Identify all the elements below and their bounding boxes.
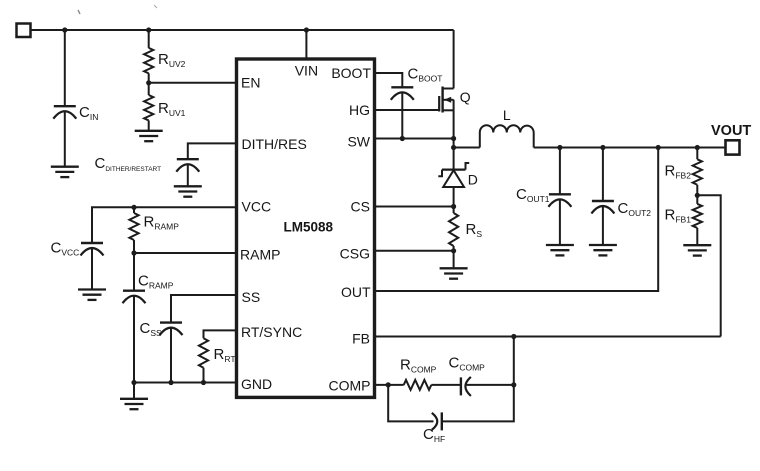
- svg-text:RUV2: RUV2: [158, 51, 186, 69]
- ground RFB1: [683, 245, 711, 255]
- svg-text:CCOMP: CCOMP: [449, 355, 486, 373]
- resistor RCOMP: [404, 380, 432, 390]
- node COUT2 junction: [600, 145, 605, 150]
- wire RCOMP to CCOMP: [431, 384, 461, 386]
- node OUT junction: [656, 145, 661, 150]
- node CIN junction: [62, 27, 67, 32]
- svg-text:RFB2: RFB2: [665, 163, 692, 181]
- svg-text:SW: SW: [347, 134, 370, 150]
- svg-text:VIN: VIN: [295, 62, 318, 78]
- resistor RRAMP: [129, 207, 138, 253]
- node CS junction: [451, 204, 456, 209]
- svg-text:CVCC: CVCC: [51, 240, 80, 258]
- svg-text:COUT1: COUT1: [516, 186, 550, 204]
- svg-text:RT/SYNC: RT/SYNC: [241, 324, 302, 340]
- ground GND rail: [120, 383, 148, 410]
- node FB junction: [511, 334, 516, 339]
- wire BOOT: [374, 73, 402, 87]
- wire HG: [374, 109, 439, 111]
- wire FB tap: [697, 195, 720, 336]
- node COUT1 junction: [557, 145, 562, 150]
- svg-text:RRAMP: RRAMP: [144, 214, 180, 232]
- wire RAMP: [134, 252, 237, 254]
- svg-text:OUT: OUT: [341, 284, 371, 300]
- wire OUT: [374, 148, 658, 292]
- node RRAMP top junction: [131, 205, 136, 210]
- wire CHF to node: [442, 385, 514, 422]
- capacitor CRAMP: [123, 253, 146, 383]
- svg-text:LM5088: LM5088: [284, 220, 334, 235]
- svg-text:HG: HG: [349, 102, 370, 118]
- svg-text:CSG: CSG: [340, 246, 370, 262]
- wire output rail: [534, 147, 726, 149]
- wire to inductor: [454, 147, 480, 149]
- wire SW: [374, 138, 454, 140]
- node CBOOT-SW junction: [400, 136, 405, 141]
- wire GND rail: [134, 382, 237, 384]
- svg-text:COMP: COMP: [329, 378, 371, 394]
- node L junction: [451, 145, 456, 150]
- svg-text:CSS: CSS: [140, 320, 163, 338]
- svg-text:SS: SS: [242, 289, 261, 305]
- VOUT terminal: [726, 140, 740, 154]
- capacitor CSS: [160, 323, 183, 383]
- node RFB2 junction: [695, 145, 700, 150]
- svg-text:RAMP: RAMP: [240, 247, 280, 263]
- svg-text:L: L: [503, 107, 511, 123]
- svg-text:EN: EN: [241, 75, 260, 91]
- wire CSG: [374, 250, 454, 252]
- wire SS: [171, 295, 237, 323]
- svg-text:DITH/RES: DITH/RES: [242, 136, 307, 152]
- wire VCC: [92, 207, 237, 243]
- capacitor COUT1: [548, 148, 571, 246]
- inductor L: [480, 125, 534, 147]
- wire CCOMP to node: [467, 384, 514, 386]
- svg-text:CIN: CIN: [79, 104, 98, 122]
- resistor RS: [449, 213, 458, 268]
- resistor RUV2: [144, 30, 153, 95]
- wire COMP: [374, 384, 404, 386]
- resistor RFB1: [693, 204, 702, 245]
- node COMP right junction: [511, 382, 516, 387]
- input terminal: [17, 24, 31, 38]
- diode D schottky: [438, 163, 469, 213]
- svg-text:RFB1: RFB1: [665, 207, 692, 225]
- svg-text:RS: RS: [466, 221, 483, 239]
- op-amp U1 IC LM5088 body: [237, 59, 375, 397]
- svg-text:FB: FB: [352, 331, 370, 347]
- capacitor CCOMP: [461, 377, 471, 396]
- wire top rail: [31, 29, 454, 31]
- svg-text:CRAMP: CRAMP: [138, 273, 174, 291]
- svg-text:GND: GND: [241, 376, 272, 392]
- ground CDITHER: [174, 186, 202, 196]
- ground COUT1: [546, 245, 574, 255]
- node CSG junction: [451, 248, 456, 253]
- svg-text:RRT: RRT: [214, 346, 236, 364]
- wire FB: [374, 336, 721, 338]
- node EN junction: [146, 80, 151, 85]
- svg-text:VCC: VCC: [242, 199, 272, 215]
- node FB tap junction: [695, 193, 700, 198]
- svg-text:RCOMP: RCOMP: [400, 357, 437, 375]
- node GND rail junctions: [131, 380, 136, 385]
- capacitor COUT2: [591, 148, 614, 246]
- svg-text:CDITHER/RESTART: CDITHER/RESTART: [95, 155, 162, 173]
- svg-text:VOUT: VOUT: [711, 123, 751, 139]
- node RUV2 top junction: [146, 27, 151, 32]
- resistor RUV1: [144, 95, 153, 131]
- capacitor CBOOT: [391, 87, 414, 138]
- capacitor CIN: [53, 30, 76, 167]
- svg-text:Q: Q: [460, 89, 471, 105]
- capacitor CHF: [432, 412, 442, 430]
- node VIN rail junction: [304, 27, 309, 32]
- ground CVCC: [78, 290, 106, 300]
- ground COUT2: [589, 245, 617, 255]
- capacitor CVCC: [81, 243, 104, 290]
- wire VIN stub: [305, 30, 307, 59]
- wire DITH/RES: [188, 143, 237, 159]
- node RAMP junction: [131, 250, 136, 255]
- wire CHF branch: [388, 385, 433, 422]
- svg-text:CBOOT: CBOOT: [408, 66, 443, 84]
- svg-text:RUV1: RUV1: [158, 100, 186, 118]
- stray mark: [78, 10, 80, 14]
- wire RT/SYNC: [204, 330, 238, 338]
- node COMP junction: [386, 382, 391, 387]
- node SW junction: [451, 136, 456, 141]
- svg-text:CS: CS: [351, 199, 370, 215]
- wire FB to comp: [513, 337, 515, 385]
- wire CS: [374, 206, 454, 208]
- wire EN: [149, 82, 237, 84]
- transistor Q1: [439, 30, 453, 170]
- svg-text:D: D: [468, 172, 478, 188]
- ground RS: [440, 268, 468, 278]
- ground RUV1: [135, 131, 163, 141]
- resistor RFB2: [693, 148, 702, 204]
- ground CIN: [51, 167, 79, 177]
- svg-text:BOOT: BOOT: [331, 65, 371, 81]
- svg-text:COUT2: COUT2: [618, 200, 652, 218]
- capacitor CDITHER: [176, 159, 199, 186]
- resistor RRT: [199, 338, 208, 382]
